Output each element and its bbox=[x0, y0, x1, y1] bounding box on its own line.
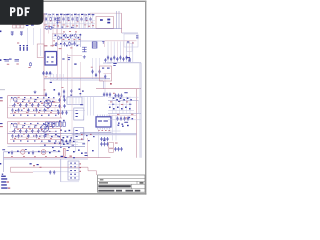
top band red label 6 bbox=[92, 24, 94, 27]
amp A vstub b7 bbox=[54, 108, 56, 112]
wire bundle top bbox=[105, 40, 137, 42]
wire top drop b3 bbox=[56, 22, 58, 29]
amp B part 8 bbox=[16, 127, 18, 128]
wire weave top 2 bbox=[46, 13, 48, 29]
capacitor CU3 bbox=[49, 71, 51, 75]
U2 top pin 4 bbox=[104, 115, 106, 117]
cb part 4 bbox=[93, 136, 95, 137]
mid band part 2 bbox=[61, 37, 63, 39]
wire under U1 bbox=[42, 73, 53, 75]
wire bus stub x63.2 bbox=[62, 74, 64, 80]
capacitor C2 bbox=[54, 17, 56, 21]
wire filter drop c bbox=[40, 29, 42, 45]
amp B part 30 bbox=[57, 136, 59, 137]
U2 bottom pin 6 bbox=[108, 127, 110, 129]
cluster above CN1 c bbox=[73, 157, 75, 158]
wire weave h2 bbox=[44, 23, 95, 25]
resistor R2 bbox=[58, 17, 60, 22]
T1 mark a bbox=[68, 56, 70, 59]
rb extra label bbox=[131, 113, 133, 116]
amp B edge mark red bbox=[0, 126, 3, 127]
top band label 3 bbox=[66, 13, 68, 16]
label right of snubber 2 bbox=[113, 64, 115, 67]
top band red label 3 bbox=[67, 25, 69, 28]
capacitor C11 bbox=[95, 73, 97, 77]
U2 bottom pin 4 bbox=[104, 127, 106, 129]
wire rb row3 bbox=[108, 119, 141, 121]
amp B part 23 bbox=[15, 136, 17, 137]
cc part 2 bbox=[63, 120, 65, 121]
wire right top bus bbox=[121, 13, 123, 33]
U1 left pin y57.5 bbox=[44, 57, 45, 59]
wire main bus left tick bbox=[0, 89, 5, 91]
wire rb mid bbox=[108, 103, 132, 105]
label right of snubber bbox=[113, 62, 116, 65]
amp B part 21 bbox=[49, 131, 51, 132]
value label top 2 bbox=[49, 13, 52, 16]
wire top frame bbox=[90, 12, 122, 14]
conn part 2 bbox=[66, 141, 68, 142]
amp A part 29 bbox=[51, 110, 53, 111]
bottom part 2 bbox=[17, 151, 19, 152]
wire weave top 17 bbox=[80, 13, 82, 29]
amp B part 37 bbox=[55, 141, 57, 142]
part mid r3 bbox=[80, 93, 82, 94]
wire rb top bbox=[108, 100, 139, 102]
varistor inner bbox=[40, 46, 42, 57]
rc part c 4 bbox=[132, 118, 134, 119]
connector J4 bbox=[74, 128, 84, 140]
wire secondary lead 8 bbox=[129, 42, 131, 63]
amp B vstub 7 bbox=[49, 125, 51, 129]
amp A vstub 3 bbox=[23, 99, 25, 103]
electrolytic CE1 bbox=[19, 45, 21, 46]
U2 bottom pin 1 bbox=[97, 127, 99, 129]
wire red route 4v bbox=[96, 171, 98, 175]
CN1 pin 5b bbox=[74, 177, 76, 178]
amp A red 9 bbox=[38, 111, 40, 114]
mid band part 7 bbox=[80, 34, 82, 36]
wire weave h1 bbox=[44, 16, 80, 18]
amp A left rail bbox=[7, 96, 9, 118]
mid band part b 5 bbox=[77, 45, 79, 46]
amp A part 18 bbox=[31, 105, 33, 106]
wire cb x87.5 bbox=[87, 97, 89, 116]
wire rc h1 bbox=[108, 96, 139, 98]
cb part 1 bbox=[81, 134, 83, 135]
cc part b 7 bbox=[52, 147, 54, 148]
weave red 5 bbox=[86, 19, 88, 22]
amp B red 7 bbox=[14, 137, 16, 140]
capacitor CR2 bbox=[106, 93, 108, 97]
capacitor C1 bbox=[45, 17, 47, 21]
wire under CN1 bbox=[61, 181, 79, 183]
wire cc h4 bbox=[40, 146, 85, 148]
U2 bottom pin 5 bbox=[106, 127, 108, 129]
amp B part 26 bbox=[33, 136, 35, 137]
weave red 2 bbox=[59, 21, 61, 24]
title block divider 4 bbox=[98, 188, 146, 190]
capacitor C10 bbox=[91, 70, 93, 74]
cc part 3 bbox=[60, 130, 62, 131]
amp B cap row2 2 bbox=[17, 134, 19, 138]
U1 pin text 3 bbox=[47, 61, 49, 62]
title divider vert 2 bbox=[131, 184, 133, 189]
mid band part b 1 bbox=[55, 45, 57, 46]
wire stub b bbox=[52, 29, 54, 34]
wire red route 1v bbox=[10, 167, 12, 172]
ground G1 bbox=[83, 55, 86, 58]
label Q2 bbox=[49, 125, 52, 128]
aux mark 3 bbox=[136, 35, 138, 38]
amp A cap row2 3 bbox=[27, 108, 29, 112]
amp B vstub 5 bbox=[36, 125, 38, 129]
wire bottom bus 1 bbox=[4, 151, 61, 153]
aux mark 4 bbox=[136, 37, 138, 40]
filter cap bundle 3 bbox=[113, 56, 115, 60]
amp A row 4 bbox=[10, 113, 62, 115]
mid band part 3 bbox=[63, 35, 65, 37]
cap rb low 1 bbox=[114, 147, 116, 151]
edge tick a bbox=[0, 59, 1, 61]
label R10 bbox=[28, 66, 30, 69]
red mark CR bbox=[113, 92, 115, 95]
snubber mark b bbox=[107, 68, 110, 69]
amp A input transistor bbox=[13, 97, 17, 101]
amp B vstub b6 bbox=[47, 133, 49, 137]
legend row 2 bbox=[1, 181, 6, 182]
mark left of U2 bbox=[82, 142, 85, 145]
amp B vstub 8 bbox=[55, 125, 57, 129]
wire drop x92.5 bbox=[92, 58, 94, 79]
title bottom text d bbox=[135, 190, 141, 192]
cb part 6 bbox=[88, 140, 90, 141]
wire under U2 b bbox=[72, 134, 137, 136]
U1 right pin y57.5 bbox=[57, 57, 58, 59]
bottom part 6 bbox=[58, 151, 60, 152]
amp B part 2 bbox=[24, 123, 26, 124]
amp A part 17 bbox=[25, 105, 27, 106]
cluster mb red a bbox=[33, 165, 35, 166]
amp B row 2 bbox=[14, 127, 60, 129]
cap rb low 2 bbox=[117, 147, 119, 151]
cap under U2 b2 bbox=[103, 142, 105, 146]
ref label top 2 bbox=[53, 24, 55, 27]
mid band part b 3 bbox=[66, 45, 68, 46]
amp A vstub b1 bbox=[12, 108, 14, 112]
amp A row extra bbox=[12, 110, 58, 112]
wire rb row4 bbox=[108, 130, 121, 132]
cap rb 1 bbox=[116, 117, 118, 121]
amp B cap row2 3 bbox=[27, 134, 29, 138]
U2 pin label 2 bbox=[102, 129, 104, 132]
wire purple bus bbox=[61, 13, 63, 97]
wire cc h2 bbox=[40, 134, 85, 136]
U1 left pin y61 bbox=[44, 60, 45, 62]
amp A part 28 bbox=[45, 110, 47, 111]
cc part b 5 bbox=[54, 143, 56, 144]
cc part 7 bbox=[63, 137, 65, 138]
amp B row 1 bbox=[10, 124, 55, 126]
transistor Q2 bbox=[41, 125, 49, 133]
value label top 12 bbox=[85, 13, 88, 16]
connector J2 bbox=[67, 97, 82, 104]
J4 mark c bbox=[76, 135, 78, 138]
wire bus stub x50.5 bbox=[50, 74, 52, 80]
wire rb bus2 bbox=[108, 114, 137, 116]
top band label 4 bbox=[74, 13, 76, 16]
amp A row extra2 bbox=[9, 105, 56, 107]
node label A bbox=[62, 59, 64, 60]
mid band part 6 bbox=[78, 37, 80, 39]
weave red 6 bbox=[91, 21, 93, 24]
wire right rail inner bbox=[139, 63, 141, 158]
amp B part 13 bbox=[46, 126, 48, 127]
capacitor C6 bbox=[55, 42, 57, 46]
bus node mark bbox=[50, 82, 52, 83]
cap mid 2 bbox=[61, 111, 63, 115]
amp A part 22 bbox=[55, 105, 57, 106]
amp A vstub b3 bbox=[26, 108, 28, 112]
amp A part 9 bbox=[22, 101, 24, 102]
wire top drop b10 bbox=[88, 22, 90, 29]
bottom part 10 bbox=[92, 150, 94, 151]
amp B cap row1 5 bbox=[37, 129, 39, 133]
cap rb 4 bbox=[127, 117, 129, 121]
amp B part 22 bbox=[55, 131, 57, 132]
amp A part 12 bbox=[40, 101, 42, 102]
wire top drop 10 bbox=[88, 13, 90, 17]
amp B vstub b4 bbox=[33, 133, 35, 137]
U1 pin text 1 bbox=[47, 57, 49, 58]
amp A part 10 bbox=[28, 101, 30, 102]
rc part c 3 bbox=[129, 117, 131, 118]
wire rb bus bbox=[108, 113, 141, 115]
part mid r1 bbox=[79, 89, 81, 90]
capacitor C8 bbox=[63, 42, 65, 46]
top band red label 4 bbox=[76, 25, 78, 28]
amp A vstub b6 bbox=[47, 108, 49, 112]
capacitor CU1 bbox=[42, 71, 44, 75]
CN1 pin 2a bbox=[70, 166, 72, 167]
amp B part 32 bbox=[20, 140, 22, 141]
amp A part 32 bbox=[20, 115, 22, 116]
value label top 7 bbox=[67, 13, 70, 16]
cluster mb blue b bbox=[37, 164, 39, 165]
bottom red 2 bbox=[23, 155, 25, 158]
cb part 5 bbox=[81, 139, 83, 140]
capacitor CB5 bbox=[49, 170, 51, 174]
rb extra part 2 bbox=[122, 126, 124, 127]
label right of U1 bbox=[59, 47, 62, 50]
rc part b 6 bbox=[129, 108, 131, 110]
label C10 bbox=[91, 66, 93, 69]
cc part 8 bbox=[67, 136, 69, 137]
diode D2 bbox=[82, 47, 87, 52]
amp A part 21 bbox=[49, 105, 51, 106]
CN1 pin 4a bbox=[70, 174, 72, 175]
amp A part 16 bbox=[19, 105, 21, 106]
mark right conn a bbox=[85, 152, 88, 155]
mid band part b 4 bbox=[71, 44, 73, 45]
cluster above CN1 a bbox=[61, 156, 64, 157]
wire top drop 2 bbox=[52, 13, 54, 17]
line filter cell 1 bbox=[13, 25, 16, 28]
ground G2 bbox=[34, 91, 37, 94]
U2 text b bbox=[104, 121, 108, 122]
filter cap bundle 1 bbox=[107, 56, 109, 60]
wire main bus bbox=[96, 88, 141, 90]
wire secondary lead 9 bbox=[132, 42, 134, 63]
wire weave top 8 bbox=[60, 13, 62, 29]
amp A cap row2 1 bbox=[11, 108, 13, 112]
label top x72 bbox=[70, 47, 72, 50]
title text small bbox=[100, 179, 104, 180]
title bottom text a bbox=[98, 190, 114, 192]
amp A frame top bbox=[8, 95, 48, 97]
amp A part 8 bbox=[16, 101, 18, 102]
J2 divider 1 bbox=[69, 98, 71, 104]
amp B part 4 bbox=[37, 123, 39, 124]
cap conn top 2 bbox=[65, 140, 67, 144]
CN1 row divider 4 bbox=[68, 175, 79, 177]
wire top drop b1 bbox=[47, 22, 49, 29]
amp A cap row1 1 bbox=[13, 103, 15, 107]
wire rb v x116 bbox=[115, 97, 117, 114]
wire mid rows a bbox=[40, 109, 85, 111]
mid band red 1 bbox=[63, 31, 65, 34]
wire x80 mid bbox=[80, 62, 82, 97]
amp A vstub b5 bbox=[40, 108, 42, 112]
amp B red 8 bbox=[26, 137, 28, 140]
wire cc h1 bbox=[40, 133, 85, 135]
mid band part 5 bbox=[72, 35, 74, 37]
wire weave top 11 bbox=[67, 13, 69, 29]
inductor L1 bbox=[5, 60, 10, 62]
U2 bottom pin 3 bbox=[101, 127, 103, 129]
rc label 2 bbox=[118, 100, 120, 103]
amp B cap row1 2 bbox=[19, 129, 21, 133]
amp A red 3 bbox=[41, 102, 43, 105]
bottom part 1 bbox=[8, 152, 10, 153]
value label top 5 bbox=[60, 13, 63, 16]
fuse box F2 bbox=[109, 143, 114, 149]
rc part 6 bbox=[130, 99, 132, 101]
wire weave top 15 bbox=[76, 13, 78, 29]
cluster mb blue a bbox=[30, 163, 32, 164]
amp B red 6 bbox=[47, 133, 49, 136]
wire drop x99.5 bbox=[99, 58, 101, 79]
amp B part 16 bbox=[19, 131, 21, 132]
value label top 3 bbox=[52, 13, 55, 16]
amp B part 33 bbox=[27, 141, 29, 142]
filter cap bundle 5 bbox=[119, 56, 121, 60]
amp A part 31 bbox=[13, 115, 15, 116]
J4 mark b bbox=[76, 132, 79, 135]
J3 mark c bbox=[76, 115, 78, 118]
amp A label red bbox=[18, 96, 20, 99]
amp B cap row2 5 bbox=[43, 134, 45, 138]
wire red route 3v bbox=[87, 167, 89, 171]
amp B part 25 bbox=[27, 136, 29, 137]
electrolytic CE2 bbox=[23, 45, 25, 46]
comp D5 mark bbox=[74, 64, 76, 65]
cc part 1 bbox=[59, 121, 61, 122]
polar cap CB4 bbox=[64, 149, 66, 157]
fuse mark b bbox=[9, 59, 12, 60]
cc part 5 bbox=[69, 130, 71, 131]
resistor R10 bbox=[30, 62, 32, 67]
amp A part 36 bbox=[48, 115, 50, 116]
U2 top pin 3 bbox=[101, 115, 103, 117]
bottom part 8 bbox=[78, 150, 80, 151]
wire x72 drop bbox=[71, 45, 73, 97]
top band red label 2 bbox=[57, 25, 59, 28]
capacitor CB6 bbox=[53, 170, 55, 174]
wire weave top 20 bbox=[87, 13, 89, 29]
wire rc h2 bbox=[108, 110, 134, 112]
amp A label 2 bbox=[35, 98, 38, 101]
rc part b 4 bbox=[121, 108, 123, 110]
filter mark b bbox=[31, 25, 34, 26]
amp A cap row1 2 bbox=[19, 103, 21, 107]
amp B part 11 bbox=[34, 127, 36, 128]
legend row 2r bbox=[7, 181, 9, 182]
resistor D1 bbox=[85, 17, 87, 22]
title block divider 2 bbox=[98, 180, 146, 182]
mid band part 1 bbox=[55, 35, 57, 37]
jack ring bbox=[21, 150, 25, 154]
varistor box bbox=[37, 44, 44, 58]
transformer T1 primary lead bbox=[67, 54, 69, 97]
amp A part 11 bbox=[34, 101, 36, 102]
title bottom text b bbox=[116, 190, 122, 192]
U2 top pin 6 bbox=[108, 115, 110, 117]
amp A vstub b4 bbox=[33, 108, 35, 112]
amp A frame right bbox=[60, 96, 62, 118]
jumper box bbox=[127, 44, 133, 52]
amp B edge mark blue bbox=[0, 123, 3, 124]
amp A part 3 bbox=[30, 97, 32, 98]
rc part c 1 bbox=[118, 123, 120, 124]
title block frame bbox=[98, 175, 146, 192]
amp A part 13 bbox=[46, 101, 48, 102]
long rail y146.6 bbox=[8, 146, 86, 148]
electrolytic CE3 bbox=[26, 45, 28, 46]
J2 divider 4 bbox=[78, 98, 80, 104]
amp A part 23 bbox=[15, 110, 17, 111]
wire weave top 22 bbox=[91, 13, 93, 29]
rc part b 2 bbox=[113, 108, 115, 110]
relay coil mark 2 bbox=[107, 22, 110, 24]
amp A part 26 bbox=[33, 110, 35, 111]
amp A vstub b2 bbox=[19, 108, 21, 112]
diode array cell 2 bbox=[49, 122, 51, 126]
wire secondary lead 1 bbox=[107, 42, 109, 63]
value label top 8 bbox=[71, 13, 74, 16]
line filter cell 3 bbox=[21, 25, 24, 28]
wire top drop b2 bbox=[52, 22, 54, 29]
cc part b 1 bbox=[45, 134, 47, 135]
CN1 pin 2b bbox=[74, 166, 76, 167]
wire branch right bbox=[80, 34, 82, 48]
CN1 arrow 1 bbox=[79, 163, 81, 164]
wire U2 down bbox=[98, 129, 100, 157]
CN1 pin 1b bbox=[74, 163, 76, 164]
bundle label b bbox=[128, 60, 131, 63]
cc part b 2 bbox=[51, 136, 53, 137]
amp B part 35 bbox=[41, 141, 43, 142]
